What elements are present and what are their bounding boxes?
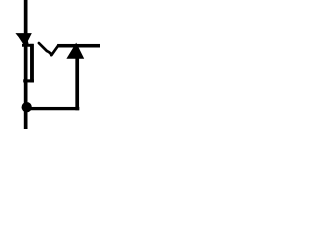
fuse body right side xyxy=(30,44,34,83)
diode D1 (pointing down, blunt tip) xyxy=(15,33,31,45)
gate tick (diagonal check mark at bar left end) xyxy=(39,43,58,55)
wire (bottom horizontal) xyxy=(26,107,79,110)
wire (right vertical) xyxy=(75,58,79,110)
fuse body bottom bar xyxy=(23,79,34,82)
junction dot (node) xyxy=(22,102,32,112)
wire (left vertical, top terminal to bottom edge) xyxy=(24,0,28,129)
fuse body top bar xyxy=(22,44,34,47)
cathode bar of D2 (to right edge) xyxy=(57,44,100,48)
diode D2 (pointing up) xyxy=(66,43,84,59)
